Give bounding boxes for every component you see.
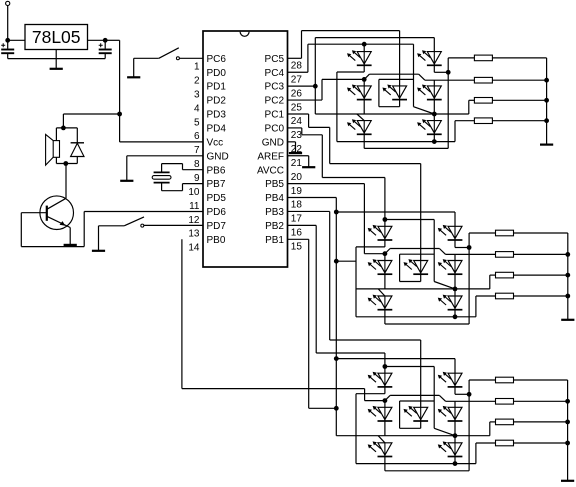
svg-text:4: 4 [194,103,200,114]
svg-text:20: 20 [291,172,303,183]
ground [540,144,553,146]
LED D_ML2 [378,261,392,273]
wire [7,6,9,41]
wire [363,134,365,148]
svg-text:PC3: PC3 [265,82,285,93]
ground [64,244,77,246]
frame [400,253,435,255]
svg-text:PC4: PC4 [265,68,285,79]
svg-text:PD6: PD6 [207,207,227,218]
node [453,461,458,466]
svg-text:PB7: PB7 [207,179,226,190]
wire PB5 pin19 [288,183,365,185]
svg-text:PD3: PD3 [207,110,227,121]
LED D_C1 [393,86,407,98]
wire [420,421,422,428]
node [565,294,570,299]
svg-text:26: 26 [291,88,303,99]
node [544,118,549,123]
wire [144,224,203,226]
svg-text:PB1: PB1 [265,235,284,246]
wire [83,212,85,247]
node [383,217,388,222]
wire [514,295,568,297]
node [565,420,570,425]
svg-text:PD1: PD1 [207,82,227,93]
node [383,364,388,369]
wire [447,58,449,148]
svg-text:PC6: PC6 [207,54,227,65]
wire [384,421,386,436]
svg-text:9: 9 [194,173,200,184]
wire [385,219,434,221]
node [467,245,472,250]
diode D1 [76,128,78,143]
wire [414,107,435,114]
wire [378,289,385,296]
wire [20,213,22,247]
wire PC4 pin27 [288,71,308,73]
svg-text:8: 8 [194,159,200,170]
node [453,287,458,292]
wire [363,65,365,72]
terminal J1 [6,1,10,5]
wire [433,38,435,52]
svg-text:PD2: PD2 [207,96,227,107]
wire [514,400,568,402]
svg-text:24: 24 [291,116,303,127]
resistor R7 [496,272,514,278]
svg-text:GND: GND [262,137,284,148]
LED D_BR2 [448,296,462,308]
wire [468,233,470,324]
node [565,441,570,446]
wire PC5 pin28 [288,57,302,59]
wire [567,380,569,480]
wire [21,246,84,248]
wire [454,436,456,443]
wire [161,183,163,191]
wire [378,436,385,443]
wire [454,401,456,407]
wire [514,274,568,276]
wire [8,39,25,41]
node [63,161,68,166]
wire [63,113,119,115]
svg-text:AVCC: AVCC [257,165,284,176]
svg-text:PB6: PB6 [207,165,226,176]
wire [56,163,77,165]
node [61,126,66,131]
wire to PB7 [183,183,204,185]
svg-text:23: 23 [291,130,303,141]
wire emitter [69,228,71,245]
wire [363,79,365,86]
wire base [21,212,47,214]
wire [567,233,569,319]
wire [56,127,77,129]
wire [454,387,456,394]
wire PB1 pin15 [288,238,309,240]
svg-text:PD7: PD7 [207,221,227,232]
wire [55,128,57,141]
node [313,84,318,89]
LED D_BR1 [427,121,441,133]
wire [492,57,546,59]
wire [454,254,456,260]
svg-text:7: 7 [194,145,200,156]
ground [92,250,105,252]
wire [454,310,456,317]
node [334,406,339,411]
LED D_MR3 [448,407,462,419]
LED D_ML1 [357,86,371,98]
svg-text:18: 18 [291,200,303,211]
LED D_ML3 [378,407,392,419]
LED D_BL3 [378,443,392,455]
wire [55,50,57,69]
svg-text:19: 19 [291,186,303,197]
wire [384,457,386,471]
wire [384,240,386,247]
frame [400,400,435,402]
wire [161,164,163,173]
wire [454,274,456,289]
wire [492,79,546,81]
wire [448,57,474,59]
wire [356,288,455,290]
LED D_TR2 [448,226,462,238]
svg-text:PC2: PC2 [265,96,285,107]
node [453,433,458,438]
node +9V [5,38,10,43]
wire [384,274,386,289]
ground [561,480,574,482]
svg-text:PB3: PB3 [265,207,284,218]
resistor R3 [474,98,492,104]
wire PC0 pin23 [288,127,302,129]
svg-text:GND: GND [207,151,229,162]
svg-text:27: 27 [291,74,303,85]
node [565,399,570,404]
wire [120,141,203,143]
wire PB3 pin17 [288,210,330,212]
node [362,42,367,47]
wire [133,58,135,76]
svg-text:1: 1 [194,62,200,73]
wire [454,212,456,226]
svg-text:78L05: 78L05 [32,27,81,47]
wire [420,340,422,407]
wire [384,254,386,261]
node [453,314,458,319]
svg-text:17: 17 [291,214,303,225]
svg-text:PC0: PC0 [265,124,285,135]
svg-text:3: 3 [194,89,200,100]
wire [336,435,356,437]
resistor R2 [474,77,492,83]
node [334,356,339,361]
wire [8,58,106,60]
wire [514,442,568,444]
wire [385,395,390,400]
svg-text:PC5: PC5 [265,54,285,65]
wire [433,100,435,114]
wire [454,240,456,248]
svg-text:15: 15 [291,242,303,253]
wire PB0 [181,239,183,388]
wire [420,164,422,261]
wire to PB6 [183,169,204,171]
wire [357,114,364,121]
LED D_TR1 [427,52,441,64]
wire PC1 pin24 [288,113,309,115]
node [467,392,472,397]
wire [162,163,183,165]
svg-text:PD0: PD0 [207,68,227,79]
svg-text:5: 5 [194,117,200,128]
ground [561,319,574,321]
svg-text:28: 28 [291,61,303,72]
LED D_TL2 [378,226,392,238]
node [334,259,339,264]
wire [55,157,57,163]
svg-text:11: 11 [189,201,200,212]
wire pin21 AREF [288,155,309,157]
wire [514,253,568,255]
resistor R1 [474,55,492,61]
switch S1 [134,57,159,59]
wire collector [65,164,67,199]
node [334,210,339,215]
wire [454,359,456,374]
wire [385,366,434,368]
wire [455,288,490,290]
resistor R6 [496,252,514,258]
wire [336,358,455,360]
LED D_BL1 [357,121,371,133]
ground [289,152,302,154]
wire [433,80,435,86]
resistor R8 [496,293,514,299]
node [383,251,388,256]
wire [126,156,128,180]
wire [433,114,435,121]
svg-text:AREF: AREF [257,151,284,162]
LED D_MR1 [427,86,441,98]
wire [454,421,456,436]
wire [469,379,495,381]
wire [336,260,356,262]
svg-text:10: 10 [188,187,200,198]
wire [356,435,455,437]
wire [454,457,456,464]
LED D_BR3 [448,443,462,455]
wire [399,31,401,86]
wire [475,296,477,317]
capacitor C1 [7,40,9,48]
node [446,70,451,75]
wire [384,353,386,373]
wire [433,65,435,72]
wire [514,421,568,423]
node [362,77,367,82]
resistor R5 [496,230,514,236]
wire [492,120,546,122]
wire [454,121,456,142]
svg-text:25: 25 [291,102,303,113]
svg-text:2: 2 [194,76,200,87]
ground [120,180,133,182]
wire [434,113,469,115]
wire [546,58,548,144]
ground [302,166,315,168]
resistor R4 [474,118,492,124]
svg-text:12: 12 [188,215,200,226]
wire [363,100,365,114]
transistor Q1 [40,196,74,230]
speaker SP1 [53,141,59,158]
wire [384,387,386,394]
node [544,78,549,83]
wire PB4 pin18 [288,197,337,199]
node [383,398,388,403]
wire [363,44,365,51]
wire [399,100,401,107]
svg-text:Vcc: Vcc [207,137,224,148]
resistor R9 [496,377,514,383]
wire [385,249,390,254]
svg-text:PB5: PB5 [265,179,284,190]
resistor R10 [496,399,514,405]
node [565,252,570,257]
LED D_C3 [414,407,428,419]
wire Vcc [119,40,121,142]
wire [182,164,184,170]
svg-text:PD5: PD5 [207,193,227,204]
wire [455,435,490,437]
wire [336,211,455,213]
wire PC3 pin26 [288,85,316,87]
node [432,112,437,117]
svg-text:21: 21 [291,158,303,169]
IC U1 ATmega8 [203,31,288,267]
switch S2 [99,225,125,227]
wire [514,379,568,381]
wire [469,232,495,234]
wire [314,38,316,114]
svg-text:PB4: PB4 [265,193,284,204]
wire [384,401,386,408]
regulator IC2 78L05 [25,25,88,50]
wire [475,443,477,464]
resistor R11 [496,419,514,425]
wire [315,37,434,39]
LED D_MR2 [448,261,462,273]
resistor R12 [496,440,514,446]
frame [379,78,414,80]
resonator Q2 [154,171,170,173]
wire pin22 GND [288,141,296,143]
wire [182,184,184,191]
svg-text:PB0: PB0 [207,235,226,246]
svg-text:14: 14 [188,243,200,254]
ground [50,68,63,70]
wire PB0 route [182,388,365,390]
node [432,139,437,144]
wire [180,57,204,59]
wire [420,274,422,281]
wire [514,232,568,234]
node +5V [103,38,108,43]
wire [162,190,183,192]
wire [127,155,203,157]
svg-text:13: 13 [188,229,200,240]
wire [454,289,456,296]
wire PB2 pin16 [288,224,317,226]
svg-text:PB2: PB2 [265,221,284,232]
wire [364,74,369,79]
wire [315,113,434,115]
LED D_TL3 [378,373,392,385]
wire [88,39,106,41]
node [117,112,122,117]
wire [413,44,415,106]
LED D_BL2 [378,296,392,308]
LED D_TL1 [357,52,371,64]
capacitor C2 [104,40,106,48]
wire [433,134,435,141]
svg-text:6: 6 [194,131,200,142]
wire [384,310,386,324]
svg-text:PC1: PC1 [265,110,285,121]
wire [105,39,119,41]
wire to PD6 [84,211,203,213]
svg-text:PD4: PD4 [207,124,227,135]
wire [468,380,470,471]
wire [492,99,546,101]
svg-text:16: 16 [291,228,303,239]
node [565,273,570,278]
ground [127,76,140,78]
wire PC2 pin25 [288,99,323,101]
node [544,98,549,103]
wire [62,114,64,128]
wire [384,178,386,227]
LED D_TR3 [448,373,462,385]
wire [98,226,100,250]
LED D_C2 [414,261,428,273]
